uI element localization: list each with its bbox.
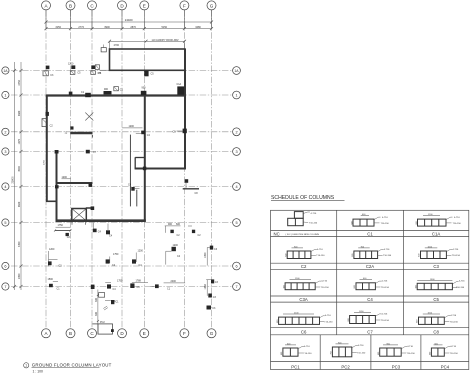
svg-text:PC3: PC3 (392, 364, 401, 369)
wall grid F (184, 49, 186, 169)
right bubble 5 (233, 219, 241, 227)
svg-text:C6: C6 (301, 330, 307, 335)
column marker on left wall row 1-2 (46, 112, 49, 116)
svg-text:4-T16: 4-T16 (325, 315, 331, 317)
svg-text:NC: NC (274, 231, 280, 236)
lower dim line A-B (55, 230, 71, 232)
svg-text:4-T16: 4-T16 (450, 346, 456, 348)
svg-text:1200: 1200 (62, 176, 68, 179)
top bubble A (42, 1, 51, 10)
column marker C/7 (91, 285, 95, 289)
ticks below bottom wall at shaft (71, 222, 73, 225)
cell C5 section (417, 281, 458, 290)
right bubble 1 (233, 91, 241, 99)
svg-text:1200: 1200 (138, 249, 144, 252)
svg-text:600: 600 (417, 320, 419, 323)
grid line G (211, 10, 213, 329)
svg-text:900: 900 (168, 223, 173, 226)
top wall row 1 (46, 94, 185, 96)
svg-text:T10-150: T10-150 (324, 321, 333, 323)
marker G/5-6 (206, 248, 208, 266)
right bubble 7 (233, 283, 241, 291)
cell PC2 section (332, 344, 357, 357)
grid line D (121, 10, 123, 329)
svg-text:1970: 1970 (18, 138, 21, 144)
top intermediate dim ticks (45, 27, 214, 30)
dim row 7 D-E (132, 281, 148, 283)
right bubble 4 (233, 183, 241, 191)
svg-text:5: 5 (235, 221, 237, 225)
svg-text:4-T16: 4-T16 (382, 314, 388, 316)
svg-text:600: 600 (351, 221, 353, 224)
cell C2 section (287, 248, 317, 259)
svg-text:6: 6 (4, 265, 6, 269)
svg-text:C1A: C1A (177, 83, 182, 86)
title underline (32, 367, 100, 369)
svg-text:2: 2 (235, 130, 237, 134)
svg-text:1750: 1750 (44, 159, 46, 165)
svg-text:1: 1 (25, 364, 27, 368)
svg-text:4-T16: 4-T16 (384, 249, 390, 251)
svg-text:E: E (143, 331, 146, 336)
left bubble 7 (2, 283, 9, 290)
svg-text:5: 5 (4, 221, 6, 225)
svg-text:900: 900 (104, 88, 109, 91)
table column lines row5 (319, 335, 321, 370)
left bubble 6 (2, 262, 9, 269)
svg-text:3900: 3900 (104, 26, 110, 29)
wall segment row 2 (70, 132, 92, 134)
top bubble E (140, 1, 149, 10)
column marker B/5 (66, 233, 69, 236)
cell C7 section (350, 312, 382, 323)
column marker at B/1A (71, 65, 75, 69)
svg-text:1200: 1200 (68, 63, 74, 66)
svg-text:7: 7 (235, 285, 237, 289)
grid line 1 (11, 94, 232, 96)
svg-text:4-T16: 4-T16 (304, 346, 310, 348)
column marker at E/1 (141, 91, 147, 95)
svg-text:T10-150: T10-150 (309, 223, 318, 225)
svg-text:600: 600 (285, 254, 287, 257)
svg-text:T10-150: T10-150 (383, 255, 392, 257)
column marker E/7 (130, 283, 134, 288)
bottom bubble E (140, 329, 149, 338)
wall stub right of shaft (86, 207, 93, 209)
interior wall dim 1200 (62, 178, 71, 180)
svg-text:T10-150: T10-150 (450, 353, 459, 355)
bottom inset top column (111, 300, 114, 304)
svg-text:1200: 1200 (49, 248, 55, 251)
svg-text:600: 600 (348, 318, 350, 321)
stair box wall horizontal (135, 157, 144, 159)
DIMENSIONS (12, 10, 214, 290)
svg-text:24400: 24400 (125, 18, 133, 22)
left bubble 1A (2, 67, 9, 74)
table row lines (271, 229, 469, 231)
top bubble F (180, 1, 189, 10)
column marker at F/2 (183, 129, 187, 134)
elevator shaft cross (73, 209, 86, 220)
interior wall B (57, 182, 93, 184)
top overall dimension line (46, 21, 212, 23)
svg-text:600: 600 (176, 223, 181, 226)
pilaster on left wall (42, 119, 47, 127)
table column lines rows1-4 (336, 210, 338, 334)
table frame (271, 210, 469, 369)
cell PC1 section (283, 345, 304, 356)
dim row 2 D-E (122, 127, 142, 129)
left bubble 5 (2, 219, 9, 226)
svg-text:300: 300 (95, 297, 98, 302)
svg-text:3600: 3600 (18, 201, 21, 207)
bottom wall (56, 219, 146, 222)
svg-text:600: 600 (419, 254, 421, 257)
svg-text:1050: 1050 (204, 284, 207, 290)
svg-text:600: 600 (277, 320, 279, 323)
svg-text:1750: 1750 (58, 224, 64, 227)
title bubble 1 (24, 363, 29, 368)
bottom inset column PC2 (111, 329, 114, 332)
stair box wall vertical (134, 157, 136, 169)
svg-text:T10-150: T10-150 (357, 352, 366, 354)
svg-text:4-T16: 4-T16 (459, 281, 465, 283)
left bubble 4 (2, 183, 9, 190)
svg-text:G: G (210, 3, 214, 8)
svg-text:4-T16: 4-T16 (450, 315, 456, 317)
svg-text:PC4: PC4 (441, 364, 450, 369)
SCHEDULE (271, 195, 469, 369)
stair flight line 2 (136, 190, 138, 207)
bottom inset slab rect (98, 324, 113, 334)
svg-text:2050: 2050 (18, 273, 21, 279)
svg-text:C1A: C1A (432, 231, 440, 236)
schedule title underline (271, 200, 345, 202)
svg-text:1: 1 (4, 94, 6, 98)
svg-text:T10-150: T10-150 (303, 353, 312, 355)
step marker E-F/5 no.2 (192, 230, 195, 233)
svg-text:4350: 4350 (18, 241, 21, 247)
svg-text:2400: 2400 (171, 280, 177, 283)
right bubble 1A (233, 67, 241, 75)
bottom bubble G (207, 329, 216, 338)
svg-text:4-T16: 4-T16 (382, 217, 388, 219)
step marker E-F/5 no.1 (165, 225, 181, 227)
right bubble 2 (233, 128, 241, 136)
svg-text:T10-150: T10-150 (407, 353, 416, 355)
column marker at F/1 (177, 86, 184, 94)
grid line 1A (11, 70, 232, 72)
column marker at E/2 (141, 131, 145, 135)
top intermediate dimension line (46, 28, 212, 30)
svg-text:B: B (69, 3, 72, 8)
svg-text:1788: 1788 (136, 280, 142, 283)
top bubble G (207, 1, 216, 10)
left bubble 3 (2, 148, 9, 155)
cell C4 section (356, 280, 381, 290)
svg-text:3: 3 (235, 150, 237, 154)
marker G below 7 (206, 280, 208, 296)
svg-text:4: 4 (4, 185, 6, 189)
svg-text:T10-150: T10-150 (321, 287, 330, 289)
svg-text:600: 600 (281, 352, 283, 355)
svg-text:F: F (183, 331, 186, 336)
column marker at E canopy (144, 71, 148, 77)
svg-text:( N.C ) DENOTES NEW COLUMN: ( N.C ) DENOTES NEW COLUMN (286, 234, 320, 236)
svg-text:600: 600 (430, 352, 432, 355)
column marker on inner wall row 4 (55, 185, 59, 188)
cell PC4 section (431, 345, 450, 356)
wall grid E (144, 95, 146, 222)
grid line A (45, 10, 47, 329)
svg-text:4: 4 (235, 185, 237, 189)
svg-text:T10-150: T10-150 (381, 223, 390, 225)
svg-text:3480: 3480 (195, 26, 201, 29)
svg-text:3500: 3500 (18, 166, 21, 172)
svg-text:3: 3 (4, 150, 6, 154)
bottom inset vertical dim (97, 290, 99, 335)
column marker at E/3A (143, 167, 146, 171)
canopy dim extension lines (109, 41, 111, 48)
left inner dimension chain (20, 62, 22, 290)
canopy dimension line (110, 40, 185, 42)
svg-text:4-T16: 4-T16 (311, 213, 317, 215)
svg-text:2770: 2770 (78, 26, 84, 29)
svg-text:1750: 1750 (113, 253, 119, 256)
cell C2A section (354, 248, 384, 259)
left bubble 1 (2, 91, 9, 98)
svg-text:2700: 2700 (114, 44, 120, 47)
left bubble 2 (2, 128, 9, 135)
svg-text:3680: 3680 (18, 110, 21, 116)
svg-text:C2: C2 (301, 264, 307, 269)
BUBBLES (2, 1, 241, 338)
svg-text:4-T16: 4-T16 (453, 249, 459, 251)
grid line 6 (11, 265, 232, 267)
top bubble B (66, 1, 75, 10)
bottom bubble F (180, 329, 189, 338)
svg-text:C4: C4 (367, 297, 373, 302)
svg-text:C3A: C3A (299, 297, 307, 302)
column marker at B/2 (70, 126, 73, 129)
grid line E (143, 10, 145, 329)
svg-text:2: 2 (4, 130, 6, 134)
svg-text:600: 600 (352, 254, 354, 257)
wall stub row 4 at F (183, 188, 199, 190)
svg-text:600: 600 (415, 285, 417, 288)
svg-text:4-T16: 4-T16 (454, 217, 460, 219)
svg-text:600: 600 (354, 285, 356, 288)
svg-text:4-T16: 4-T16 (407, 346, 413, 348)
top bubble connector lines (46, 10, 212, 29)
bottom bubble A (42, 329, 51, 338)
svg-text:T10-150: T10-150 (450, 322, 459, 324)
column marker left of canopy row 1A (95, 65, 99, 70)
svg-text:4-T16: 4-T16 (321, 281, 327, 283)
svg-text:600: 600 (378, 352, 380, 355)
svg-text:C5: C5 (433, 297, 439, 302)
marker left of canopy (101, 48, 106, 52)
svg-text:T10-150: T10-150 (453, 223, 462, 225)
column blob at C on shaft wall (91, 206, 95, 210)
svg-text:300: 300 (95, 311, 98, 316)
grid line F (183, 10, 185, 329)
svg-text:600: 600 (416, 221, 418, 224)
column marker at C/1A (91, 65, 95, 69)
top overall dim ticks (45, 21, 214, 24)
right bubble 3 (233, 148, 241, 156)
svg-text:1A: 1A (234, 69, 239, 73)
svg-text:C3: C3 (433, 264, 439, 269)
svg-text:4-T16: 4-T16 (382, 281, 388, 283)
cell C3 section (421, 248, 453, 259)
cell C6 section (279, 314, 325, 324)
svg-text:C2A: C2A (366, 264, 374, 269)
svg-text:1500: 1500 (48, 278, 54, 281)
bottom bubble D (118, 329, 127, 338)
left inner wall (56, 151, 58, 222)
svg-text:4-T16: 4-T16 (358, 345, 364, 347)
svg-text:7: 7 (4, 285, 6, 289)
cell C1 section (353, 216, 381, 226)
bottom bubble B (66, 329, 75, 338)
svg-text:900: 900 (142, 87, 147, 90)
left outer chain ticks (13, 69, 16, 288)
svg-text:5150: 5150 (162, 26, 168, 29)
svg-text:4-T16: 4-T16 (317, 249, 323, 251)
svg-text:1: 1 (235, 94, 237, 98)
column marker at C-D/1 (85, 93, 91, 97)
cell C3A section (285, 280, 321, 290)
svg-text:T10-150: T10-150 (381, 320, 390, 322)
svg-text:PC1: PC1 (114, 300, 119, 303)
svg-text:C8: C8 (433, 330, 439, 335)
left wall jog (46, 200, 57, 202)
left wall grid A (46, 95, 48, 202)
svg-text:B: B (69, 331, 72, 336)
TITLE (24, 363, 112, 374)
svg-text:1/2 CANOPY ROOF ABV.: 1/2 CANOPY ROOF ABV. (152, 39, 180, 42)
column marker D-right/1 (114, 87, 119, 91)
svg-text:1200: 1200 (129, 125, 135, 128)
svg-text:G: G (210, 331, 214, 336)
svg-text:2870: 2870 (130, 26, 136, 29)
column marker at B/1 (69, 92, 73, 96)
column marker C/5 (93, 223, 95, 229)
svg-text:1A: 1A (3, 69, 8, 73)
bottom bubble C (88, 329, 97, 338)
grid line B (70, 10, 72, 329)
svg-text:E: E (143, 3, 146, 8)
elevator shaft box (72, 209, 87, 221)
svg-text:2450: 2450 (18, 79, 21, 85)
svg-text:T10-150: T10-150 (381, 287, 390, 289)
column marker at A/1A (46, 66, 50, 70)
cell PC3 section (380, 345, 408, 356)
svg-text:21600: 21600 (12, 176, 15, 184)
svg-text:C7: C7 (367, 330, 373, 335)
grid line 7 (11, 286, 232, 288)
top bubble C (88, 1, 97, 10)
cell NC section (288, 212, 310, 226)
dim row 7 E-F (164, 282, 186, 284)
void cross mark (85, 113, 93, 121)
cell C8 section (419, 314, 451, 324)
column marker at E/4 (131, 187, 134, 191)
svg-text:GROUND FLOOR COLUMN LAYOUT: GROUND FLOOR COLUMN LAYOUT (32, 363, 112, 368)
svg-text:1050: 1050 (204, 252, 207, 258)
svg-text:6: 6 (235, 265, 237, 269)
stair flight line 1 (129, 135, 131, 207)
right bubble 6 (233, 262, 241, 270)
grid line 3 (11, 151, 232, 153)
canopy dim ticks (108, 40, 186, 43)
column marker at C/3 (86, 150, 90, 154)
svg-text:1200: 1200 (173, 244, 179, 247)
grid line 2 (11, 131, 232, 133)
grid line 5 (11, 222, 232, 224)
svg-text:1750: 1750 (117, 280, 123, 283)
WALLS (46, 49, 199, 222)
canopy outline (110, 49, 186, 70)
svg-text:PC2: PC2 (341, 364, 350, 369)
column marker D/5 (106, 230, 110, 234)
tick below segment end (92, 135, 94, 138)
MARKERS (42, 45, 219, 335)
svg-text:T10-150: T10-150 (456, 287, 465, 289)
svg-text:PC2: PC2 (100, 321, 105, 324)
svg-text:3150: 3150 (55, 26, 61, 29)
svg-text:T10-150: T10-150 (316, 255, 325, 257)
column marker at F/4 (185, 179, 188, 183)
left inner chain ticks (20, 69, 23, 288)
grid line 4 (11, 186, 232, 188)
svg-text:T10-150: T10-150 (452, 255, 461, 257)
svg-text:C1: C1 (367, 231, 373, 236)
svg-text:PC1: PC1 (291, 364, 300, 369)
marker G/7 (206, 278, 211, 280)
grid line C (91, 10, 93, 329)
top bubble D (118, 1, 127, 10)
svg-text:600: 600 (283, 285, 285, 288)
column marker D-left/1 (104, 91, 112, 94)
svg-text:750: 750 (331, 351, 333, 354)
column marker at B/3 (55, 150, 59, 154)
GRID-LINES (11, 10, 232, 329)
interior wall row 3A (135, 168, 186, 170)
left outer dimension chain (14, 62, 16, 290)
marker at end of interior wall (89, 184, 93, 187)
cell C1A section (418, 216, 453, 226)
svg-text:1 : 100: 1 : 100 (33, 369, 43, 373)
dim below bottom wall A-B (56, 226, 71, 228)
svg-text:F: F (183, 3, 186, 8)
